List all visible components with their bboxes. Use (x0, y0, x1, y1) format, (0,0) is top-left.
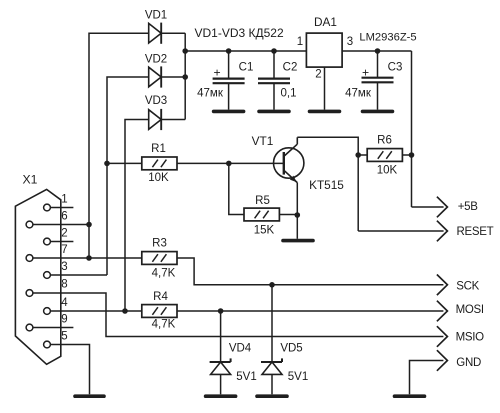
wire supply bus to DA1 pin1 (185, 50, 306, 52)
svg-text:R5: R5 (255, 195, 270, 207)
svg-text:8: 8 (61, 278, 67, 290)
svg-text:DA1: DA1 (314, 15, 337, 29)
svg-text:+: + (213, 65, 220, 79)
diode VD2 (149, 66, 162, 87)
diode VD3 (149, 109, 162, 130)
svg-text:3: 3 (347, 36, 353, 48)
svg-text:VD5: VD5 (280, 342, 302, 354)
svg-text:6: 6 (61, 210, 67, 222)
svg-text:2: 2 (61, 227, 67, 239)
svg-text:+: + (362, 65, 369, 79)
svg-text:VD1-VD3 КД522: VD1-VD3 КД522 (195, 26, 284, 40)
svg-text:GND: GND (456, 357, 481, 369)
node VD5 top (269, 282, 275, 288)
svg-text:10K: 10K (148, 172, 169, 184)
wire emitter down (296, 183, 298, 239)
svg-text:C3: C3 (388, 61, 403, 73)
pin 7 circle (26, 255, 33, 262)
wire R6 right (402, 154, 411, 156)
node supply bus left (182, 48, 188, 54)
ground (GND output) (395, 394, 425, 398)
wire base (177, 162, 284, 164)
resistor R6 (367, 149, 402, 162)
pin 3 wire (50, 274, 107, 276)
pin 9 stub wire (33, 327, 74, 329)
svg-text:15K: 15K (254, 224, 275, 236)
wire DA1 pin 2 to ground (324, 67, 326, 110)
ground (VD5) (257, 394, 287, 398)
svg-text:KT515: KT515 (309, 178, 344, 192)
pin 4 wire to R4 (50, 310, 141, 312)
arrow GND (437, 350, 448, 371)
wire VD3 anode from pin 4 (125, 120, 149, 312)
pin 2 stub wire (50, 241, 73, 243)
svg-text:+5В: +5В (458, 201, 479, 213)
svg-text:5: 5 (61, 330, 67, 342)
pin 8 wire to MSIO (33, 293, 444, 337)
svg-text:5V1: 5V1 (288, 371, 308, 383)
svg-text:4: 4 (61, 297, 68, 309)
diode VD1 (149, 23, 162, 44)
node VD4 top (218, 308, 224, 314)
wire GND output (410, 361, 444, 395)
svg-text:C1: C1 (239, 61, 254, 73)
transistor VT1 (274, 137, 304, 182)
svg-text:7: 7 (61, 244, 67, 256)
wire R6 left (358, 154, 367, 156)
svg-text:SCK: SCK (456, 280, 479, 292)
svg-text:47мк: 47мк (345, 88, 372, 100)
node C1 top (226, 48, 232, 54)
node emitter R5 (295, 212, 301, 218)
node VD2 cathode (182, 74, 188, 80)
svg-text:VD4: VD4 (229, 342, 252, 354)
resistor R3 (142, 252, 177, 265)
wire RESET output (358, 230, 443, 232)
svg-text:C2: C2 (283, 61, 298, 73)
ground (C1) (214, 110, 244, 114)
pin 4 circle (44, 308, 51, 315)
arrow RESET (437, 221, 448, 242)
pin 2 circle (44, 238, 51, 245)
node R5 top (226, 161, 232, 167)
svg-text:R3: R3 (152, 238, 167, 250)
wire collector to RESET rail (297, 137, 358, 231)
capacitor C1 (213, 51, 245, 110)
ground (DA1) (310, 110, 340, 114)
resistor R1 (142, 157, 177, 170)
svg-text:R6: R6 (377, 135, 392, 147)
wire R3 to SCK (177, 258, 443, 285)
svg-text:X1: X1 (23, 173, 38, 187)
wire VD2 anode from pin 3 (107, 77, 149, 275)
capacitor C2 (258, 51, 290, 110)
svg-text:4,7K: 4,7K (152, 318, 176, 330)
svg-text:R4: R4 (153, 291, 168, 303)
svg-text:5V1: 5V1 (236, 371, 256, 383)
svg-text:0,1: 0,1 (281, 88, 297, 100)
node R6 right (409, 152, 415, 158)
pin 1 circle (44, 204, 51, 211)
arrow MOSI (437, 301, 448, 322)
svg-text:9: 9 (61, 313, 67, 325)
wire VD1 anode (89, 33, 149, 258)
pin 8 circle (26, 290, 33, 297)
ground (VD4) (206, 394, 236, 398)
wire R5 left from base node (229, 163, 244, 214)
pin 5 wire to ground (50, 345, 89, 395)
pin 5 circle (44, 341, 51, 348)
node pin7 junction (86, 255, 92, 261)
pin 6 circle (26, 221, 33, 228)
pin 9 circle (26, 324, 33, 331)
resistor R4 (142, 305, 177, 318)
svg-text:4,7K: 4,7K (152, 268, 176, 280)
arrow +5V (437, 197, 448, 218)
pin 6 wire to node (33, 224, 89, 226)
svg-text:1: 1 (61, 193, 67, 205)
svg-text:LM2936Z-5: LM2936Z-5 (359, 31, 416, 43)
wire DA1 output (342, 50, 411, 52)
wire diode cathodes column (161, 33, 185, 119)
node C3 top (375, 48, 381, 54)
resistor R5 (244, 208, 279, 221)
svg-text:R1: R1 (151, 143, 166, 155)
svg-text:1: 1 (297, 36, 303, 48)
wire R4 to MOSI (177, 310, 443, 312)
regulator DA1 (306, 33, 342, 67)
node pin4 junction (122, 308, 128, 314)
node C2 top (271, 48, 277, 54)
node pin6 junction (86, 222, 92, 228)
capacitor C3 (362, 51, 394, 110)
svg-text:10K: 10K (377, 164, 398, 176)
arrow SCK (437, 275, 448, 296)
wire +5V output (412, 206, 444, 208)
connector X1 shell (15, 189, 60, 364)
svg-text:VD1: VD1 (145, 9, 167, 21)
svg-text:VD2: VD2 (145, 53, 167, 65)
ground (C2) (259, 110, 289, 114)
node R6 left (355, 152, 361, 158)
wire +5V vertical rail (411, 51, 413, 207)
zener VD4 (210, 311, 231, 394)
svg-text:VD3: VD3 (145, 95, 167, 107)
svg-text:47мк: 47мк (197, 88, 224, 100)
svg-text:MOSI: MOSI (456, 304, 484, 316)
ground (C3) (363, 110, 393, 114)
node R1 junction (104, 161, 110, 167)
wire R5 right (279, 214, 297, 216)
svg-text:2: 2 (315, 69, 321, 81)
ground (pin 5) (75, 394, 104, 398)
svg-text:MSIO: MSIO (456, 332, 485, 344)
zener VD5 (261, 285, 282, 395)
ground (VT1 emitter) (283, 239, 313, 243)
svg-text:RESET: RESET (457, 226, 494, 238)
svg-text:3: 3 (61, 261, 67, 273)
wire R1 left (107, 162, 142, 164)
pin 3 circle (44, 272, 51, 279)
svg-text:VT1: VT1 (252, 134, 274, 148)
arrow MSIO (437, 326, 448, 347)
pin 7 wire to R3 (33, 257, 142, 259)
pin 1 stub wire (50, 207, 73, 209)
